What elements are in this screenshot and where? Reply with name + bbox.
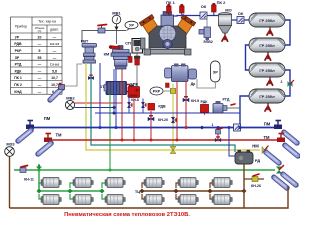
wire: GR4 to feed pipe riser bbox=[240, 96, 249, 128]
svg-text:УР: УР bbox=[129, 23, 134, 28]
svg-text:—: — bbox=[53, 56, 57, 60]
svg-text:ЗР: ЗР bbox=[213, 69, 219, 74]
valve on yellow main at bend bbox=[170, 147, 176, 154]
reserve tank ZR bbox=[197, 61, 220, 88]
svg-text:—: — bbox=[38, 42, 42, 46]
svg-text:(л): (л) bbox=[38, 29, 42, 33]
svg-text:Тех. хар-ка: Тех. хар-ка bbox=[38, 19, 56, 23]
node junction PM red bbox=[185, 126, 188, 129]
svg-text:ПМ: ПМ bbox=[264, 122, 271, 127]
svg-text:20: 20 bbox=[38, 35, 42, 39]
svg-text:—: — bbox=[53, 49, 57, 53]
svg-text:5: 5 bbox=[39, 49, 41, 53]
green cylinder branch 3 bbox=[102, 183, 106, 199]
check valve OK2 bbox=[237, 11, 244, 24]
wire: yellow riser from VR area bbox=[172, 84, 174, 150]
svg-text:МО: МО bbox=[225, 7, 231, 12]
wire: blue stub MV2 to KM riser bbox=[75, 107, 114, 109]
svg-text:ТМ: ТМ bbox=[55, 133, 62, 138]
junction nodes on green main bbox=[38, 169, 112, 172]
svg-text:ПК 1: ПК 1 bbox=[166, 0, 175, 5]
valve KN-26 bbox=[251, 174, 261, 188]
brake equipment block BT bbox=[99, 82, 129, 95]
wire: blue riser KM to PM bbox=[115, 69, 117, 128]
svg-text:Др: Др bbox=[191, 82, 197, 86]
driver brake valve KM bbox=[104, 45, 132, 69]
wire: teal riser from KVT and line to RD bbox=[91, 63, 235, 152]
valve 1 between PM and TM bbox=[212, 123, 241, 142]
svg-text:—: — bbox=[38, 63, 42, 67]
svg-text:РДК: РДК bbox=[15, 69, 23, 73]
svg-text:ПМ: ПМ bbox=[44, 116, 51, 121]
svg-text:Пневматическая схема тепловозо: Пневматическая схема тепловозов 2ТЭ10В. bbox=[64, 212, 190, 218]
svg-text:7,5-9,0: 7,5-9,0 bbox=[50, 63, 60, 67]
safety valve PK1 bbox=[166, 0, 175, 15]
main reservoir GR3 bbox=[249, 63, 285, 85]
feed main PM bbox=[29, 116, 277, 128]
hose below table bbox=[50, 64, 82, 101]
check valve OK1 bbox=[200, 4, 207, 19]
node junction PM RDK bbox=[200, 126, 204, 130]
oval RKR bbox=[150, 87, 170, 95]
wire: brown riser RD to manifold and bottom bbox=[243, 164, 245, 208]
wire: blue feed to RD bbox=[229, 128, 236, 157]
green manifold junctions bbox=[37, 189, 105, 194]
svg-text:РДК: РДК bbox=[201, 100, 209, 104]
pressure switch RDV bbox=[148, 104, 166, 140]
svg-text:ГР 250л: ГР 250л bbox=[259, 68, 275, 73]
svg-text:—: — bbox=[38, 90, 42, 94]
brake main TM bbox=[52, 133, 279, 140]
end cock TM right + hose bbox=[277, 134, 298, 158]
end cock PM right + hose bbox=[274, 121, 297, 145]
svg-text:КН-9: КН-9 bbox=[191, 99, 199, 103]
wire: brown riser from MZZ bbox=[9, 156, 11, 208]
wire: green drop to cylinder manifold bbox=[39, 170, 102, 191]
wire: green main line bbox=[14, 169, 275, 171]
svg-text:КН-26: КН-26 bbox=[251, 184, 261, 188]
compressor K bbox=[139, 12, 195, 56]
valve KN-20 bbox=[148, 116, 168, 122]
svg-text:КН-20: КН-20 bbox=[158, 118, 168, 122]
svg-text:10,7: 10,7 bbox=[51, 83, 58, 87]
brake valve KVT bbox=[81, 39, 97, 64]
svg-text:ПК 1: ПК 1 bbox=[14, 76, 22, 80]
svg-text:10,7: 10,7 bbox=[51, 76, 58, 80]
svg-text:КН-11: КН-11 bbox=[24, 177, 34, 181]
wire: thin blue auxiliary line y115 bbox=[95, 112, 240, 114]
valve on green main right bbox=[276, 165, 284, 174]
hose after KN-26 bbox=[274, 176, 287, 190]
wire: stub EPK to aux line bbox=[142, 99, 144, 114]
svg-text:5,8: 5,8 bbox=[52, 69, 57, 73]
svg-text:ПК 2: ПК 2 bbox=[217, 0, 226, 5]
wire: pipe UR-KM y30.5 bbox=[82, 31, 126, 43]
svg-text:УР: УР bbox=[15, 35, 20, 39]
wire: MO to reservoir pipe bbox=[232, 19, 250, 21]
small red valve below SP bbox=[134, 53, 140, 86]
valve EPV2 bbox=[199, 16, 213, 44]
svg-text:—: — bbox=[38, 69, 42, 73]
brown cylinder branch 2 bbox=[176, 183, 180, 199]
oil separator MO bbox=[219, 7, 232, 41]
wire: blue riser KM aux bbox=[113, 69, 115, 113]
svg-text:РД: РД bbox=[255, 158, 260, 163]
green cylinder branch 2 bbox=[70, 183, 74, 199]
svg-text:НМ: НМ bbox=[252, 144, 259, 149]
valve KN-11 bbox=[20, 166, 34, 182]
svg-text:—: — bbox=[38, 76, 42, 80]
junction nodes on PM bbox=[99, 126, 242, 129]
valve EPK bbox=[128, 82, 140, 98]
wire: reservoir loop left GR2-GR3 bbox=[246, 45, 250, 70]
svg-text:давл.: давл. bbox=[50, 27, 59, 31]
brown cylinder branch 1 bbox=[142, 183, 145, 199]
brown cylinder branch 3 bbox=[210, 183, 214, 199]
wire: red riser VR to TM bbox=[176, 82, 178, 140]
valve on GR3-GR4 loop bbox=[281, 80, 294, 87]
svg-text:РТД: РТД bbox=[15, 63, 22, 67]
svg-text:ОК: ОК bbox=[238, 11, 244, 16]
valve on yellow riser lower bbox=[171, 117, 176, 123]
safety valve (second) bbox=[180, 4, 185, 16]
table of device characteristics bbox=[11, 17, 63, 94]
svg-text:РДВ: РДВ bbox=[14, 42, 22, 46]
svg-text:МВ2: МВ2 bbox=[66, 95, 75, 100]
feed main NM (yellow) end bbox=[252, 144, 279, 165]
valve on yellow riser bbox=[171, 86, 176, 94]
svg-text:—: — bbox=[53, 35, 57, 39]
svg-text:КВТ: КВТ bbox=[81, 39, 89, 44]
main reservoir GR1 bbox=[249, 13, 285, 35]
main reservoir GR2 bbox=[249, 38, 285, 60]
svg-text:РКР: РКР bbox=[15, 49, 22, 53]
gauge MV1 bbox=[112, 11, 121, 44]
green cylinder branch 1 bbox=[39, 183, 42, 199]
svg-text:КМ: КМ bbox=[104, 52, 110, 57]
svg-text:ГР 250л: ГР 250л bbox=[259, 94, 275, 99]
end cock PM left bbox=[18, 121, 34, 143]
svg-text:ТЦ: ТЦ bbox=[135, 189, 140, 194]
svg-text:ГР 250л: ГР 250л bbox=[259, 43, 275, 48]
valve on green branch bbox=[36, 164, 42, 170]
pressure relay RD bbox=[235, 150, 260, 164]
node junctions aux bbox=[112, 106, 116, 116]
air distributor VR bbox=[165, 64, 197, 87]
wire: blue riser KN-9 to PM bbox=[185, 82, 187, 128]
svg-text:ЭПВ2: ЭПВ2 bbox=[203, 40, 213, 44]
valve KN-8 on aux line bbox=[127, 95, 145, 113]
svg-text:—: — bbox=[38, 83, 42, 87]
pressure switch RDK bbox=[201, 100, 209, 115]
safety valve PK2 bbox=[212, 0, 227, 15]
small valve on green riser bbox=[88, 75, 93, 79]
main reservoir GR4 bbox=[249, 89, 285, 111]
svg-text:МЗЗ: МЗЗ bbox=[6, 141, 15, 146]
svg-text:КН-8: КН-8 bbox=[131, 98, 139, 102]
wire: brown branch to KN-26 bbox=[244, 178, 264, 180]
gauge MZZ bbox=[5, 141, 15, 156]
wire: reservoir loop right GR1-GR2 bbox=[285, 20, 290, 45]
svg-text:ПК 2: ПК 2 bbox=[14, 83, 22, 87]
wire: red riser KM to TM bbox=[121, 69, 123, 140]
svg-text:55: 55 bbox=[38, 56, 42, 60]
node UR equalizing reservoir oval bbox=[125, 21, 138, 30]
end cock TM left + hose bbox=[38, 134, 52, 156]
brake cylinders right group bbox=[144, 178, 164, 188]
svg-text:3,2-4,5: 3,2-4,5 bbox=[50, 42, 60, 46]
wire: brown manifold right group bbox=[142, 190, 244, 192]
valve KN-9 bbox=[183, 97, 199, 103]
svg-text:ГР 250л: ГР 250л bbox=[259, 18, 275, 23]
gauge MV2 bbox=[65, 95, 75, 109]
brake cylinders left group bbox=[41, 178, 61, 188]
wire: compressor discharge pipe bbox=[174, 14, 225, 17]
wire: reservoir loop right GR3-GR4 bbox=[285, 70, 290, 96]
hose on green main end bbox=[283, 173, 296, 187]
svg-text:ОК: ОК bbox=[201, 4, 207, 9]
svg-text:Прибор: Прибор bbox=[15, 24, 27, 28]
svg-text:1: 1 bbox=[212, 123, 214, 127]
wire: red riser EPK to TM bbox=[133, 99, 135, 140]
wire: yellow riser from KVT bbox=[86, 63, 260, 150]
svg-text:ЗР: ЗР bbox=[15, 56, 20, 60]
brown manifold junctions bbox=[140, 189, 247, 194]
wire: bottom brown return line bbox=[10, 186, 289, 208]
valve on UR pipe bbox=[98, 25, 107, 34]
table text bbox=[14, 19, 59, 93]
svg-text:РГД: РГД bbox=[223, 98, 230, 102]
svg-text:РКР: РКР bbox=[153, 90, 161, 94]
unloader valve RGD bbox=[213, 98, 240, 113]
svg-text:СП: СП bbox=[125, 40, 131, 45]
wire: green riser from KVT to green main bbox=[109, 94, 111, 170]
wire: blue riser KVT to PM bbox=[99, 63, 101, 128]
svg-text:КНД: КНД bbox=[14, 90, 22, 94]
svg-text:ТМ: ТМ bbox=[263, 135, 270, 140]
device SP box bbox=[125, 39, 142, 54]
valve at VR bottom bbox=[166, 83, 170, 88]
svg-text:РДВ: РДВ bbox=[158, 105, 166, 109]
svg-text:2: 2 bbox=[281, 80, 283, 84]
wire: red from MV2 to KM riser bbox=[75, 102, 122, 104]
junction nodes on TM bbox=[121, 139, 220, 142]
